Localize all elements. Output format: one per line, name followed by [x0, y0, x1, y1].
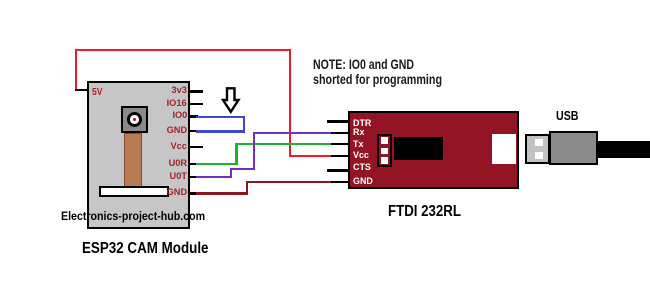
jumper pad 3	[381, 157, 389, 164]
pin stub GND	[189, 130, 198, 133]
pin stub U0T	[189, 176, 198, 179]
FTDI stub GND	[331, 181, 349, 184]
wire: blue jumper GND bottom horizontal	[196, 130, 245, 133]
FTDI stub Rx	[331, 132, 349, 135]
wire: red 5V top horizontal segment	[75, 49, 291, 51]
pin label 3v3	[172, 86, 187, 96]
label USB	[556, 108, 579, 123]
label FTDI 232RL	[388, 203, 461, 221]
wire: red 5V horizontal segment to FTDI Vcc	[289, 155, 334, 157]
pin stub 3v3	[189, 90, 203, 93]
FTDI pin label GND	[353, 177, 373, 187]
pin stub Vcc	[189, 146, 203, 149]
wire: purple vertical (tall)	[253, 132, 256, 171]
USB plug metal shell	[525, 134, 550, 164]
note text line 2	[313, 71, 442, 87]
FTDI chip (black)	[394, 137, 443, 160]
wire: purple vertical (short)	[230, 168, 233, 179]
FTDI jumper header block	[377, 134, 392, 167]
board connector (white)	[99, 186, 169, 198]
FTDI pin label CTS	[353, 163, 371, 173]
FTDI stub Vcc	[331, 155, 349, 158]
USB plug body	[549, 131, 598, 165]
arrow pointing to IO0-GND short	[221, 87, 241, 114]
wire: dark red GND horizontal (left)	[196, 192, 248, 195]
wire: green U0R horizontal (left)	[196, 163, 237, 166]
wire: blue jumper vertical	[243, 116, 246, 133]
pin stub IO16	[189, 103, 203, 106]
camera lens housing	[121, 106, 148, 133]
wire: black stub from red wire into ESP 5V pad	[75, 89, 89, 92]
pin label U0T	[170, 172, 187, 182]
note text line 1	[313, 56, 414, 72]
FTDI pin label DTR	[353, 119, 371, 129]
ESP32 CAM module body	[87, 81, 190, 229]
FTDI pin label Vcc	[353, 151, 369, 161]
label: 5V pad	[92, 87, 102, 98]
pin label IO16	[167, 99, 187, 109]
wire: red 5V vertical segment (right, down to Vcc level)	[289, 49, 291, 156]
wire: green horizontal to FTDI Tx	[235, 143, 334, 146]
USB shell hole 1	[535, 139, 543, 146]
pin label Vcc	[171, 142, 187, 152]
wire: dark red vertical	[246, 181, 249, 195]
USB shell hole 2	[535, 152, 543, 160]
jumper pad 1	[381, 137, 389, 144]
wire: green vertical	[235, 143, 238, 166]
pin stub U0R	[189, 163, 198, 166]
FTDI stub Tx	[331, 143, 349, 146]
wire: purple U0T horizontal (left)	[196, 176, 232, 179]
pin label U0R	[169, 159, 187, 169]
FTDI stub DTR	[327, 120, 349, 123]
FTDI stub CTS	[327, 169, 349, 172]
wire: dark red horizontal to FTDI GND	[246, 181, 335, 184]
wire: red 5V vertical segment (left)	[75, 49, 77, 91]
wire: purple horizontal to FTDI Rx	[253, 132, 335, 135]
pin label GND (bottom)	[167, 188, 187, 198]
USB cable	[597, 141, 650, 159]
FTDI pin label Rx	[353, 128, 364, 138]
wire: blue jumper IO0 top horizontal	[196, 116, 245, 119]
camera flex cable	[124, 133, 142, 187]
wire: purple middle horizontal	[230, 168, 255, 171]
jumper pad 2	[381, 148, 389, 155]
label ESP32 CAM Module	[82, 240, 209, 258]
pin stub GND bottom	[189, 192, 198, 195]
label Electronics-project-hub.com	[61, 211, 205, 223]
camera lens	[127, 112, 142, 127]
FTDI mini-USB port (white)	[492, 134, 516, 164]
FTDI 232RL board body	[348, 111, 519, 189]
pin stub IO0	[189, 115, 198, 118]
FTDI pin label Tx	[353, 140, 363, 150]
pin label GND	[167, 126, 187, 136]
pin label IO0	[172, 111, 187, 121]
